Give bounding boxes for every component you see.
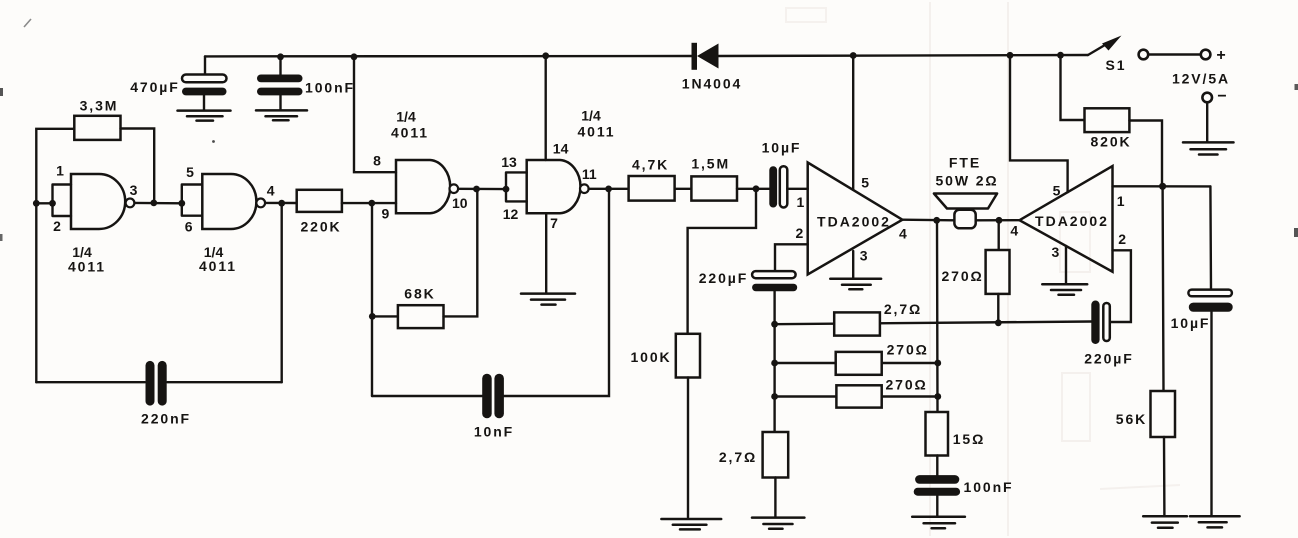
node: gate4 bracket junction: [503, 186, 510, 193]
speaker FTE horn: [934, 194, 997, 209]
wire junction down to 100K: [688, 189, 756, 334]
wire TDA2 pin3 to ground: [1065, 246, 1067, 283]
svg-text:10µF: 10µF: [1171, 315, 1211, 331]
svg-text:13: 13: [501, 154, 517, 170]
nand gate U1a bubble: [126, 199, 135, 208]
wire 220nF loop: bottom: [36, 381, 281, 383]
capacitor C 100nF feedback top plate: [915, 475, 959, 484]
wire node down to 270ohm: [998, 220, 1000, 250]
capacitor C 470uF bottom plate: [182, 88, 227, 96]
svg-text:4,7K: 4,7K: [632, 157, 669, 173]
node: rail-820K junction: [1057, 52, 1064, 59]
wire 10nF loop bottom left: [372, 395, 482, 397]
wire 220uF down to feedback bus: [773, 291, 775, 324]
capacitor C 100nF feedback bottom plate: [914, 488, 960, 496]
wire gate3 output to gate4 bracket: [458, 188, 506, 191]
svg-text:50W 2Ω: 50W 2Ω: [935, 172, 998, 188]
wire TDA2 pin1 row: [1113, 185, 1211, 187]
ground for pin7: [521, 294, 575, 305]
wire 68K from pin9 node down: [371, 203, 373, 396]
diode D1 1N4004 triangle: [697, 44, 719, 69]
svg-text:TDA2002: TDA2002: [817, 213, 891, 229]
svg-text:3: 3: [860, 248, 868, 264]
switch S1 blade: [1088, 42, 1110, 55]
scan speck right edge top: [1295, 84, 1298, 90]
wire 56K to ground: [1163, 437, 1166, 515]
svg-text:220K: 220K: [300, 219, 341, 235]
wire 220K to pin9: [342, 202, 396, 204]
capacitor C 10nF right plate: [494, 374, 504, 419]
node: speaker right junction: [996, 217, 1003, 224]
ground for TDA2 pin3: [1042, 284, 1087, 295]
wire 1,5M to 10uF: [737, 188, 769, 190]
top power rail left segment: [205, 55, 693, 58]
capacitor C 10nF left plate: [482, 374, 492, 419]
svg-text:100K: 100K: [630, 349, 671, 365]
wire 2,7ohm to ground: [774, 478, 776, 517]
wire gate4 output to 4,7K: [589, 188, 629, 190]
wire 68K right up to gate3 output node: [444, 189, 478, 316]
wire TDA1 pin2: [775, 244, 808, 271]
svg-text:4011: 4011: [199, 258, 237, 274]
capacitor C 10uF input right plate outline: [780, 166, 788, 207]
ground for 470uF: [178, 111, 231, 121]
nand gate U1d body: [527, 160, 581, 213]
gate U1b input bracket: [182, 185, 203, 216]
wire gate1 output to gate2 input: [135, 202, 182, 205]
node: bracket junction gate2: [178, 200, 185, 207]
wire 220nF loop: right vertical: [281, 203, 283, 382]
node: wire1 270ohm junction: [995, 319, 1002, 326]
ground for 2,7ohm: [752, 518, 804, 529]
node: bracket junction gate1: [49, 200, 56, 207]
svg-text:15Ω: 15Ω: [953, 431, 986, 447]
capacitor C 220uF input top plate outline: [752, 271, 796, 278]
node: wire2 junction right: [934, 360, 941, 367]
battery terminal circle minus: [1202, 93, 1212, 103]
svg-text:820K: 820K: [1090, 133, 1131, 149]
resistor R 270ohm mid body: [836, 352, 882, 375]
wire 100nF to ground: [936, 496, 938, 516]
svg-text:1: 1: [56, 163, 64, 179]
svg-text:68K: 68K: [404, 285, 435, 301]
capacitor C 220nF left plate: [146, 361, 155, 406]
wire 820K right down to pin1 node: [1129, 121, 1162, 187]
wire 100K to ground: [687, 378, 689, 518]
svg-text:1,5M: 1,5M: [691, 156, 730, 172]
svg-text:3: 3: [130, 182, 138, 198]
ground for 56K: [1143, 516, 1187, 528]
svg-text:2: 2: [53, 218, 61, 234]
wire gate2 output to 220K: [265, 202, 297, 205]
svg-text:10µF: 10µF: [762, 139, 802, 155]
wire pin7 to ground: [545, 213, 547, 292]
resistor R 68K body: [398, 305, 444, 328]
node: bus wire2 junction: [771, 360, 778, 367]
svg-text:2,7Ω: 2,7Ω: [884, 301, 922, 317]
ground for battery minus: [1183, 142, 1234, 154]
svg-text:FTE: FTE: [949, 154, 981, 170]
node: gate4 output / 10nF junction: [605, 186, 612, 193]
node: bus wire1 junction: [771, 321, 778, 328]
svg-text:220µF: 220µF: [699, 270, 748, 286]
svg-text:270Ω: 270Ω: [887, 342, 929, 358]
nand gate U1c bubble: [450, 184, 459, 193]
resistor R 220K body: [297, 190, 342, 212]
resistor R 4,7K body: [629, 176, 675, 201]
wire 3,3M right to gate1 output node: [121, 129, 155, 200]
op-amp U3 TDA2002 body mirrored: [1020, 166, 1113, 272]
svg-text:14: 14: [553, 140, 569, 156]
resistor R 270ohm low body: [836, 385, 881, 407]
capacitor C 100nF bottom plate: [257, 88, 303, 96]
wire rail down to capacitor 470uF: [204, 56, 206, 74]
node: rail-TDA2 pin5 junction: [1007, 52, 1014, 59]
capacitor C 470uF top plate: [182, 75, 227, 83]
svg-text:6: 6: [185, 219, 193, 235]
svg-text:3: 3: [1052, 244, 1060, 260]
nand gate U1a body: [71, 174, 125, 229]
wire TDA1 pin5 from rail: [852, 56, 854, 190]
battery terminal circle plus: [1201, 50, 1211, 60]
svg-text:270Ω: 270Ω: [942, 268, 984, 284]
svg-text:56K: 56K: [1116, 411, 1147, 427]
svg-text:9: 9: [382, 206, 390, 222]
svg-text:12V/5A: 12V/5A: [1172, 71, 1230, 87]
ground for 100K: [661, 519, 721, 529]
capacitor C 220nF right plate: [158, 361, 167, 406]
top power rail right segment: [718, 55, 1088, 56]
wire 10uF to TDA1 pin1: [787, 188, 807, 190]
wire pin1 down right edge to 10uF out: [1209, 186, 1212, 289]
svg-text:2,7Ω: 2,7Ω: [719, 449, 757, 465]
pencil speck top-left: [24, 19, 31, 27]
svg-text:1/4: 1/4: [581, 107, 601, 123]
scan speck near 3,3M: [212, 140, 215, 143]
nand gate U1c body: [396, 160, 450, 213]
wire 56K from pin1 node down: [1161, 186, 1164, 391]
wire speaker-left node down to 15ohm chain: [936, 220, 939, 412]
wire 470uF to ground: [203, 95, 205, 110]
wire 820K from rail: [1061, 55, 1085, 120]
scan speck left edge 2: [0, 234, 3, 241]
battery terminal circle left: [1139, 50, 1149, 60]
svg-text:TDA2002: TDA2002: [1035, 213, 1109, 229]
wire 220nF loop: left vertical: [35, 203, 37, 382]
wire3 horizontal: [775, 395, 938, 397]
wire rail down to capacitor 100nF: [279, 57, 281, 75]
resistor R 820K body: [1085, 108, 1130, 132]
wire node to 68K: [372, 315, 398, 317]
svg-text:4011: 4011: [68, 259, 106, 275]
svg-text:1/4: 1/4: [396, 108, 416, 124]
wire 15ohm to 100nF: [936, 456, 938, 476]
wire 10uF out to ground: [1210, 312, 1212, 515]
wire TDA1 pin3 to ground: [852, 251, 854, 278]
node: pin1 820K 56K junction: [1159, 183, 1166, 190]
svg-text:8: 8: [373, 153, 381, 169]
scan speck left edge: [0, 88, 3, 96]
node: 1,5M / 100K junction: [753, 185, 760, 192]
nand gate U1d bubble: [580, 184, 589, 193]
svg-text:5: 5: [861, 175, 869, 191]
svg-text:−: −: [1217, 88, 1226, 105]
capacitor C 220uF out right plate outline: [1103, 303, 1110, 341]
wire1 horizontal to 220uF out: [775, 322, 1092, 325]
faint scan ghost artifacts: [786, 2, 1180, 536]
wire rail to pin8 of gate U1c: [354, 57, 396, 172]
svg-text:4011: 4011: [391, 125, 429, 141]
svg-text:220nF: 220nF: [141, 411, 191, 427]
svg-text:100nF: 100nF: [305, 80, 355, 96]
wire 100nF to ground: [279, 95, 281, 110]
resistor R 2,7ohm vertical body: [763, 432, 789, 478]
node: speaker left junction: [933, 217, 940, 224]
ground for 100nF feedback: [912, 517, 965, 529]
wire input node to gate1 input bracket: [36, 202, 52, 204]
node: bus wire3 junction: [771, 393, 778, 400]
svg-text:1: 1: [797, 194, 805, 210]
node: rail-100nF junction: [277, 53, 284, 60]
svg-text:470µF: 470µF: [130, 79, 179, 95]
resistor R 2,7ohm horizontal body: [834, 312, 880, 335]
node: 68K tap junction: [369, 313, 376, 320]
svg-text:10nF: 10nF: [474, 424, 514, 440]
wire between terminals: [1149, 53, 1200, 55]
capacitor C 10uF input left plate solid: [769, 166, 777, 207]
node: rail-pin14 junction: [542, 52, 549, 59]
svg-text:+: +: [1216, 47, 1225, 64]
svg-text:100nF: 100nF: [964, 479, 1014, 495]
wire feedback node up-left of gate U1a: [36, 129, 74, 204]
resistor R 56K body: [1151, 391, 1176, 437]
svg-text:4: 4: [267, 183, 275, 199]
svg-text:10: 10: [452, 195, 468, 211]
svg-text:4: 4: [1010, 223, 1018, 239]
resistor R 100K body: [676, 334, 700, 378]
node: rail-TDA1 pin5 junction: [850, 52, 857, 59]
wire pin14 from rail: [545, 56, 547, 160]
capacitor C 100nF top plate: [257, 75, 303, 83]
node: gate2 output / 220nF junction: [278, 200, 285, 207]
resistor R 270ohm vertical body: [986, 250, 1010, 294]
scan speck right edge mid: [1294, 228, 1298, 237]
gate U1d input bracket: [506, 172, 527, 201]
wire 270ohm down to bus wire1: [997, 294, 999, 323]
resistor R 1,5M body: [691, 176, 737, 200]
node: gate1 input junction on feedback wire: [33, 200, 40, 207]
wire TDA2 pin2: [1110, 250, 1131, 322]
node: wire3 junction right: [934, 393, 941, 400]
resistor R 15ohm body: [926, 412, 949, 456]
svg-text:1N4004: 1N4004: [682, 75, 742, 91]
svg-text:5: 5: [186, 164, 194, 180]
svg-text:S1: S1: [1106, 57, 1127, 73]
svg-text:2: 2: [796, 225, 804, 241]
svg-text:220µF: 220µF: [1084, 351, 1133, 367]
svg-text:4: 4: [899, 225, 907, 241]
svg-text:1: 1: [1117, 193, 1125, 209]
svg-text:270Ω: 270Ω: [886, 377, 928, 393]
svg-text:5: 5: [1053, 183, 1061, 199]
diode D1 1N4004 cathode bar: [692, 43, 698, 70]
node: pin9 / 68K-10nF junction: [368, 200, 375, 207]
capacitor C 10uF out bottom plate solid: [1189, 303, 1233, 312]
ground for 100nF: [256, 110, 307, 120]
capacitor C 220uF input bottom plate solid: [752, 284, 797, 292]
op-amp U2 TDA2002 body: [808, 163, 903, 275]
svg-text:3,3M: 3,3M: [80, 97, 119, 113]
nand gate U1b bubble: [256, 199, 265, 208]
gate U1a input bracket: [53, 185, 72, 217]
svg-text:11: 11: [582, 166, 597, 182]
resistor R 3,3M body: [74, 116, 120, 140]
node: gate1 output / 3.3M junction: [150, 200, 157, 207]
wire2 horizontal: [775, 362, 938, 364]
wire TDA2 pin5 from rail: [1010, 55, 1068, 192]
svg-text:2: 2: [1118, 231, 1126, 247]
svg-text:7: 7: [550, 215, 558, 231]
wire TDA1 pin4 output to speaker: [902, 218, 954, 221]
wire 10nF loop bottom right and up: [504, 189, 609, 396]
ground for 10uF out: [1190, 516, 1240, 527]
wire minus terminal to ground: [1206, 103, 1208, 142]
capacitor C 10uF out top plate outline: [1188, 290, 1232, 297]
node: gate3 output / 68K junction: [473, 186, 480, 193]
wire 4,7K to 1,5M: [675, 188, 692, 190]
nand gate U1b body: [202, 174, 256, 229]
ground for TDA1 pin3: [830, 279, 881, 289]
switch S1 arrowhead: [1102, 36, 1122, 51]
capacitor C 220uF out left plate solid: [1091, 301, 1099, 345]
speaker FTE magnet box: [954, 210, 975, 229]
node: rail-pin8 junction: [351, 53, 358, 60]
svg-text:12: 12: [503, 206, 519, 222]
feedback bus left vertical: [773, 324, 775, 432]
svg-text:4011: 4011: [578, 124, 616, 140]
wire speaker to TDA2 pin4: [976, 219, 1020, 222]
